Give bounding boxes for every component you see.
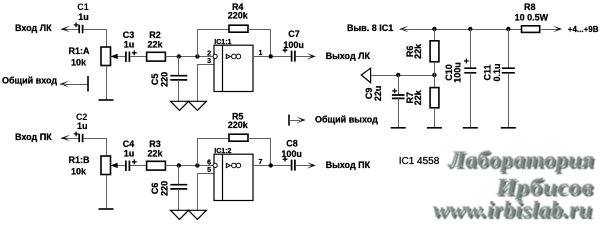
wire mid rail: [371, 75, 435, 77]
net symbol triangle mid-rail: [361, 68, 370, 83]
capacitor C1 1u: [74, 23, 79, 28]
svg-text:Лаборатория: Лаборатория: [447, 147, 594, 172]
svg-text:IC1:2: IC1:2: [214, 148, 231, 155]
terminal arrow Общий выход: [296, 117, 305, 124]
svg-text:Выв. 8 IC1: Выв. 8 IC1: [347, 23, 393, 33]
svg-text:1u: 1u: [78, 12, 89, 22]
ground triangle left: [171, 210, 189, 219]
ground bar C11: [501, 127, 516, 129]
capacitor C5 220: [178, 56, 180, 75]
wire cap to resistor: [130, 165, 146, 167]
inverting input bubble pin 6: [213, 163, 217, 167]
watermark line 3: [432, 196, 594, 224]
svg-text:Выход ЛК: Выход ЛК: [326, 51, 371, 61]
wire power rail: [399, 29, 521, 31]
junction node output: [269, 163, 273, 167]
svg-text:IC1 4558: IC1 4558: [399, 156, 440, 167]
pot wiper arrow: [111, 165, 126, 167]
svg-text:10 0.5W: 10 0.5W: [515, 12, 549, 22]
potentiometer R1:B 10k: [101, 156, 111, 175]
ground triangle left: [171, 101, 189, 110]
wire input Вход ЛК: [61, 29, 79, 31]
resistor R2 22k: [147, 52, 166, 61]
svg-text:5: 5: [207, 167, 211, 174]
wire resistor to op-amp input: [165, 56, 213, 58]
svg-text:C8: C8: [286, 139, 298, 149]
svg-text:10k: 10k: [71, 57, 87, 67]
svg-text:C7: C7: [288, 29, 300, 39]
svg-text:6: 6: [207, 160, 211, 167]
svg-text:0.1u: 0.1u: [492, 63, 502, 81]
svg-text:22k: 22k: [413, 89, 423, 105]
potentiometer R1:A 10k: [101, 47, 111, 66]
svg-text:100u: 100u: [281, 149, 302, 159]
junction node C10: [468, 27, 472, 31]
resistor R6 22k: [434, 29, 436, 41]
terminal arrow Вход ЛК: [61, 26, 70, 33]
junction node C9: [396, 73, 400, 77]
wire to output Выход ЛК: [296, 56, 312, 58]
wire to output Выход ПК: [296, 165, 312, 167]
inverting input bubble pin 2: [213, 54, 217, 58]
wire to potentiometer: [84, 29, 106, 31]
terminal arrow +4...+9V: [553, 26, 562, 33]
wire resistor to op-amp input: [165, 165, 213, 167]
svg-text:220k: 220k: [228, 11, 249, 21]
terminal arrow Выход ПК: [307, 162, 316, 169]
svg-text:Выход ПК: Выход ПК: [326, 160, 371, 170]
terminal arrow Общий вход: [60, 81, 69, 88]
ground triangle right: [188, 101, 206, 110]
svg-text:Общий выход: Общий выход: [315, 114, 378, 124]
wire input Вход ПК: [61, 138, 79, 140]
terminal arrow Вход ПК: [61, 135, 70, 142]
wire pin 5 to ground: [198, 173, 215, 175]
resistor R4 220k feedback: [197, 29, 199, 56]
svg-text:100u: 100u: [453, 62, 463, 83]
junction node cap branch: [177, 163, 181, 167]
ground triangle right: [188, 210, 206, 219]
watermark line 1: [447, 146, 596, 174]
wire pot to ground bar: [106, 66, 108, 100]
svg-text:10k: 10k: [71, 166, 87, 176]
capacitor C11 0.1u: [508, 29, 510, 68]
svg-text:2: 2: [207, 51, 211, 58]
op-amp IC1:2: [214, 154, 253, 200]
terminal arrow Выход ЛК: [307, 53, 316, 60]
wire pot to ground bar: [106, 175, 108, 209]
op-amp IC1:1: [214, 45, 253, 91]
svg-text:R8: R8: [524, 2, 536, 12]
capacitor C9 22u: [398, 75, 400, 95]
capacitor C2 1u: [74, 132, 79, 137]
svg-text:Общий вход: Общий вход: [2, 75, 57, 85]
pot wiper arrow: [111, 56, 126, 58]
ground bar below pot: [99, 99, 114, 101]
wire cap to resistor: [130, 56, 146, 58]
ground bar C9: [391, 127, 406, 129]
junction node feedback branch: [195, 163, 199, 167]
resistor R7 22k: [434, 75, 436, 88]
junction node output: [269, 54, 273, 58]
terminal bar Общий выход: [288, 115, 290, 126]
capacitor C7 100u: [283, 48, 288, 53]
svg-text:C1: C1: [77, 2, 89, 12]
svg-text:220k: 220k: [228, 120, 249, 130]
svg-text:Вход ЛК: Вход ЛК: [15, 23, 52, 33]
wire op-amp output pin 7: [253, 165, 291, 167]
svg-text:220: 220: [159, 72, 169, 87]
terminal arrow Выв. 8 IC1: [399, 26, 408, 33]
wire op-amp output pin 1: [253, 56, 291, 58]
resistor R5 220k feedback: [197, 138, 199, 165]
wire pin 3 to ground: [198, 64, 215, 66]
terminal bar Общий вход: [87, 76, 89, 92]
junction node feedback branch: [195, 54, 199, 58]
junction node C11: [506, 27, 510, 31]
svg-text:1u: 1u: [77, 121, 88, 131]
capacitor C10 100u: [470, 29, 472, 68]
junction node R6 R7: [432, 73, 436, 77]
capacitor C3 1u: [126, 52, 129, 63]
junction node R6: [432, 27, 436, 31]
watermark line 2: [494, 174, 595, 202]
svg-text:1u: 1u: [124, 39, 135, 49]
ground bar R7: [427, 127, 442, 129]
svg-text:22k: 22k: [413, 43, 423, 59]
wire to potentiometer: [84, 138, 106, 140]
svg-text:22k: 22k: [147, 39, 163, 49]
svg-text:22k: 22k: [147, 148, 163, 158]
capacitor C8 100u: [283, 157, 288, 162]
resistor R8 10 0.5W: [522, 26, 540, 33]
ground bar below pot: [99, 208, 114, 210]
svg-text:+4...+9В: +4...+9В: [568, 25, 599, 34]
junction node cap branch: [177, 54, 181, 58]
capacitor C4 1u: [126, 161, 129, 172]
svg-text:22u: 22u: [373, 86, 383, 102]
resistor R3 22k: [147, 161, 166, 170]
svg-text:C11: C11: [483, 64, 493, 80]
svg-text:R1:B: R1:B: [68, 155, 90, 165]
svg-text:R1:A: R1:A: [68, 46, 90, 56]
svg-text:www.irbislab.ru: www.irbislab.ru: [433, 197, 592, 222]
capacitor C6 220: [178, 165, 180, 184]
svg-text:IC1:1: IC1:1: [214, 39, 231, 46]
ground bar C10: [463, 127, 478, 129]
svg-text:Вход ПК: Вход ПК: [15, 132, 52, 142]
svg-text:3: 3: [207, 58, 211, 65]
svg-text:1u: 1u: [124, 148, 135, 158]
svg-text:220: 220: [159, 181, 169, 196]
svg-text:100u: 100u: [283, 40, 304, 50]
wire Общий выход: [289, 120, 300, 122]
